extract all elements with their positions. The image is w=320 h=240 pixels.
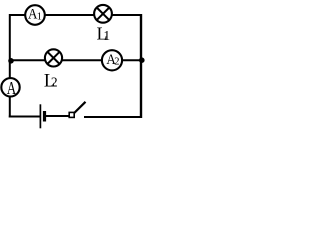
lamp L1 value label: [97, 24, 111, 44]
lamp L1 cross: [97, 8, 110, 21]
node junction dot right: [139, 57, 145, 63]
wire bottom right segment: [84, 116, 142, 118]
lamp L2 value label: [44, 72, 58, 92]
svg-text:2: 2: [51, 75, 58, 90]
switch lever: [74, 102, 86, 114]
wire bottom battery-to-switch segment: [46, 115, 69, 117]
battery short thick plate: [43, 111, 46, 122]
svg-text:A: A: [7, 79, 17, 98]
svg-text:2: 2: [114, 56, 119, 67]
lamp L1 circle: [94, 5, 112, 23]
wire left vertical: [9, 14, 11, 118]
lamp L2 circle: [45, 49, 62, 66]
wire bottom left segment: [9, 116, 40, 118]
svg-text:1: 1: [103, 28, 110, 43]
wire middle branch: [10, 59, 142, 61]
switch pivot: [69, 112, 74, 117]
lamp L2 cross: [47, 52, 59, 64]
ammeter A1 circle: [25, 5, 45, 25]
ammeter A1 label text: [28, 6, 42, 23]
ammeter A circle: [1, 78, 19, 96]
ammeter A2 label text: [106, 51, 119, 67]
battery long plate: [39, 104, 41, 128]
wire right vertical: [140, 14, 142, 118]
node junction dot left: [8, 58, 14, 64]
wire top: [9, 14, 141, 16]
ammeter A2 circle: [102, 50, 122, 70]
svg-text:1: 1: [37, 11, 42, 22]
